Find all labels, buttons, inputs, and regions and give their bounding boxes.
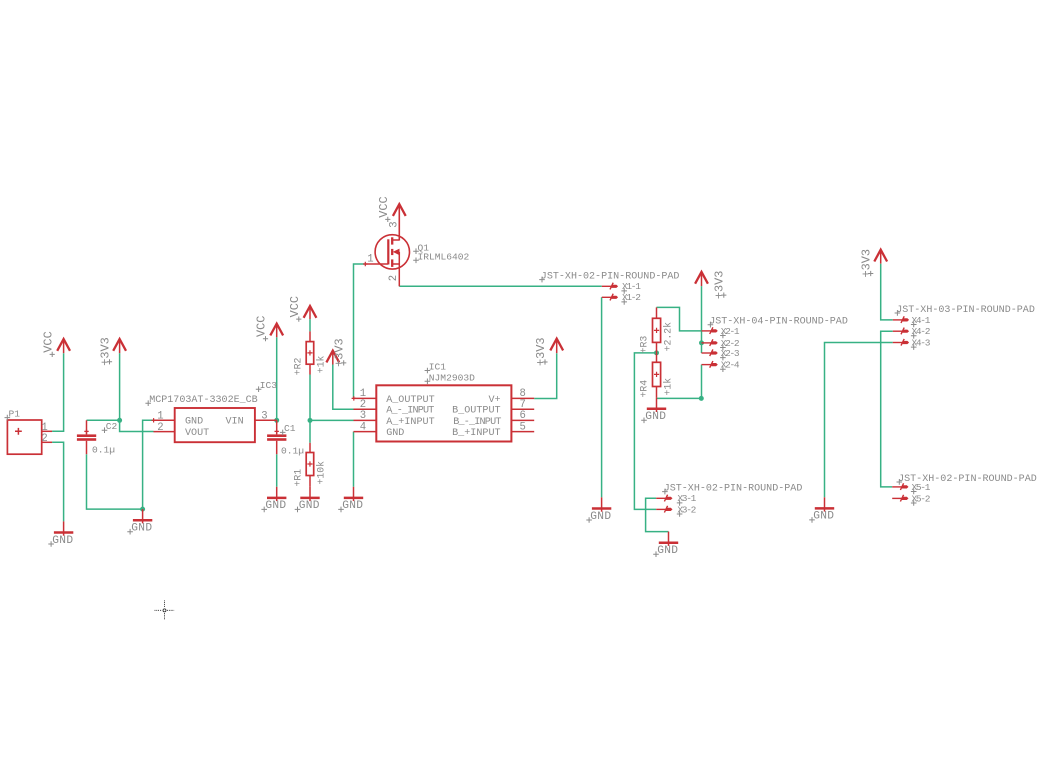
wire +3V3 to X4-1 bbox=[881, 264, 893, 320]
svg-text:+2.2k: +2.2k bbox=[662, 322, 673, 352]
ground (X3-1) bbox=[659, 532, 678, 546]
wire X3-1 to GND bbox=[646, 498, 669, 531]
ground (C1) bbox=[267, 487, 286, 501]
connector pin X4-1 bbox=[893, 316, 909, 323]
svg-text:VCC: VCC bbox=[41, 331, 55, 352]
svg-text:+R2: +R2 bbox=[292, 357, 303, 375]
svg-text:2: 2 bbox=[41, 433, 47, 445]
wire X4-2 to X5-1 bbox=[881, 331, 893, 487]
svg-text:C1: C1 bbox=[284, 423, 296, 434]
resistor R2 bbox=[306, 342, 314, 365]
wire divider node to IC1 A_+INPUT bbox=[310, 419, 354, 421]
svg-text:GND: GND bbox=[265, 500, 286, 512]
junction VCC node (C1/IC3 VIN) bbox=[274, 418, 279, 423]
svg-text:GND: GND bbox=[386, 428, 404, 439]
wire node to IC3 VOUT bbox=[120, 420, 154, 431]
svg-text:GND: GND bbox=[185, 417, 203, 428]
connector pin X1-1 bbox=[602, 283, 618, 290]
connector pin X3-2 bbox=[656, 506, 672, 513]
svg-text:VCC: VCC bbox=[255, 316, 269, 337]
junction R3/R4 node bbox=[654, 350, 659, 355]
svg-text:IC1: IC1 bbox=[429, 362, 447, 373]
supply VCC arrow (Q1 source) bbox=[393, 204, 406, 240]
svg-text:1: 1 bbox=[157, 411, 163, 423]
wire P1 pin 2 to GND bbox=[52, 442, 64, 521]
junction divider node A bbox=[308, 418, 313, 423]
supply VCC arrow (R2) bbox=[304, 306, 317, 319]
connector pin X5-1 bbox=[892, 483, 908, 490]
svg-text:+R1: +R1 bbox=[292, 469, 303, 487]
wire X4-3 to GND bbox=[825, 343, 893, 498]
supply +3V3 arrow (X4) bbox=[874, 250, 887, 264]
connector pin X3-1 bbox=[656, 495, 672, 502]
wire X2-4 down to node bbox=[701, 365, 703, 399]
svg-text:3: 3 bbox=[261, 411, 267, 423]
wire R2 bottom to divider node bbox=[309, 375, 311, 421]
connector pin X4-2 bbox=[893, 328, 909, 335]
supply VCC arrow (P1) bbox=[57, 339, 70, 353]
svg-text:A_+INPUT: A_+INPUT bbox=[386, 417, 434, 428]
ground (C2 / IC3) bbox=[133, 509, 152, 523]
wire divider node to X3-2 bbox=[634, 353, 656, 510]
svg-text:0.1µ: 0.1µ bbox=[281, 445, 304, 456]
svg-text:+R3: +R3 bbox=[639, 336, 650, 354]
junction GND node (C2) bbox=[140, 507, 145, 512]
resistor R4 bbox=[653, 362, 661, 386]
svg-text:MCP1703AT-3302E_CB: MCP1703AT-3302E_CB bbox=[149, 395, 258, 406]
svg-text:2: 2 bbox=[388, 275, 400, 281]
ground (X1-2) bbox=[592, 497, 611, 511]
capacitor C2 pin wires bbox=[86, 420, 88, 434]
svg-text:1: 1 bbox=[367, 254, 373, 266]
svg-text:C2: C2 bbox=[106, 421, 118, 432]
svg-text:+1k: +1k bbox=[662, 378, 673, 396]
op-amp IC3 MCP1703 regulator box bbox=[175, 408, 255, 442]
wire +3V3 down to node bbox=[119, 353, 121, 420]
connector pin X2-3 bbox=[702, 349, 718, 356]
wire C2 bottom to GND node bbox=[87, 454, 143, 509]
svg-text:GND: GND bbox=[342, 500, 363, 512]
connector pin X5-2 bbox=[892, 495, 908, 502]
wire X1-2 to GND bbox=[601, 297, 603, 497]
wire VCC to P1 pin 1 bbox=[52, 353, 64, 431]
wire IC1 GND pin down bbox=[353, 432, 355, 487]
ground (X4-3) bbox=[815, 497, 834, 511]
svg-text:+R4: +R4 bbox=[639, 380, 650, 398]
junction X2-2 node bbox=[699, 340, 704, 345]
ground (IC1) bbox=[344, 487, 363, 501]
svg-text:2: 2 bbox=[157, 422, 163, 434]
wire IC3 GND pin down bbox=[143, 420, 154, 509]
svg-text:A_OUTPUT: A_OUTPUT bbox=[386, 395, 434, 406]
wire IC1 A_OUTPUT to Q1 gate bbox=[354, 264, 366, 398]
supply VCC arrow (IC3 VIN / C1) bbox=[270, 324, 283, 338]
svg-text:3: 3 bbox=[388, 221, 400, 227]
svg-text:B_+INPUT: B_+INPUT bbox=[452, 428, 500, 439]
wire +3V3 to IC1 V+ bbox=[534, 353, 557, 398]
connector pin X2-4 bbox=[702, 361, 718, 368]
svg-text:GND: GND bbox=[131, 523, 152, 535]
svg-text:+1k: +1k bbox=[315, 355, 326, 373]
ground (R4) bbox=[647, 398, 666, 412]
resistor R3 bbox=[653, 318, 661, 342]
junction X2-4 node bbox=[699, 396, 704, 401]
wire divider node to R1 bbox=[309, 420, 311, 442]
connector pin X2-2 bbox=[702, 339, 718, 346]
supply +3V3 arrow (C2/IC3 VOUT) bbox=[113, 339, 126, 353]
junction +3V3 node bbox=[117, 418, 122, 423]
wire Q1 drain to X1-1 bbox=[399, 285, 602, 287]
connector P1 bbox=[7, 420, 41, 454]
svg-text:IRLML6402: IRLML6402 bbox=[418, 252, 470, 263]
supply +3V3 arrow (IC1 V+) bbox=[550, 339, 563, 354]
svg-text:IC3: IC3 bbox=[260, 380, 278, 391]
svg-text:2: 2 bbox=[360, 399, 366, 411]
svg-text:GND: GND bbox=[52, 535, 73, 547]
svg-text:A_-_INPUT: A_-_INPUT bbox=[386, 406, 434, 417]
supply +3V3 arrow (IC1 A_-_INPUT) bbox=[326, 351, 339, 365]
ground (P1 pin 2) bbox=[54, 521, 73, 535]
svg-text:GND: GND bbox=[645, 411, 666, 423]
capacitor C1 bbox=[267, 434, 286, 437]
svg-text:VCC: VCC bbox=[377, 196, 391, 217]
wire +3V3 to IC1 A_-_INPUT bbox=[333, 365, 354, 410]
svg-text:6: 6 bbox=[520, 410, 526, 422]
svg-text:3: 3 bbox=[360, 410, 366, 422]
supply +3V3 arrow (X2) bbox=[695, 272, 708, 286]
svg-text:5: 5 bbox=[520, 421, 526, 433]
svg-text:0.1µ: 0.1µ bbox=[92, 444, 115, 455]
svg-text:VIN: VIN bbox=[226, 417, 244, 428]
ground (R1) bbox=[300, 487, 319, 501]
connector pin X2-1 bbox=[702, 327, 718, 334]
resistor R1 bbox=[306, 453, 314, 476]
svg-text:B_OUTPUT: B_OUTPUT bbox=[452, 406, 500, 417]
connector pin X1-2 bbox=[602, 294, 618, 301]
wire +3V3 down to X2-2 node bbox=[701, 286, 703, 343]
svg-text:GND: GND bbox=[590, 511, 611, 523]
wire X2-2 node to X2-3 bbox=[701, 343, 703, 353]
svg-text:+10k: +10k bbox=[315, 461, 326, 485]
wire C1 bottom to GND bbox=[276, 454, 278, 487]
op-amp IC1 NJM2903D box bbox=[376, 385, 511, 441]
svg-text:VOUT: VOUT bbox=[185, 428, 209, 439]
svg-text:4: 4 bbox=[360, 421, 366, 433]
sheet origin marker bbox=[155, 601, 175, 621]
connector pin X4-3 bbox=[893, 339, 909, 346]
wire node to C2 bbox=[87, 419, 120, 421]
wire VCC down to IC3 VIN node bbox=[276, 337, 278, 420]
svg-text:GND: GND bbox=[657, 545, 678, 557]
capacitor C2 bbox=[77, 434, 96, 437]
svg-text:GND: GND bbox=[813, 511, 834, 523]
wire R4 bottom to X2-4 node bbox=[657, 397, 702, 399]
svg-text:VCC: VCC bbox=[288, 296, 302, 317]
capacitor C1 pin wires bbox=[276, 420, 278, 434]
svg-text:NJM2903D: NJM2903D bbox=[429, 373, 475, 384]
svg-text:P1: P1 bbox=[9, 409, 21, 420]
svg-text:GND: GND bbox=[299, 500, 320, 512]
svg-text:JST-XH-02-PIN-ROUND-PAD: JST-XH-02-PIN-ROUND-PAD bbox=[541, 271, 680, 282]
transistor Q1 IRLML6402 bbox=[365, 204, 409, 286]
svg-text:V+: V+ bbox=[488, 395, 500, 406]
wire VCC to R2 bbox=[309, 319, 311, 331]
svg-text:7: 7 bbox=[520, 399, 526, 411]
wire R3 top to X2-1 bbox=[657, 307, 702, 331]
svg-text:B_-_INPUT: B_-_INPUT bbox=[453, 417, 501, 428]
